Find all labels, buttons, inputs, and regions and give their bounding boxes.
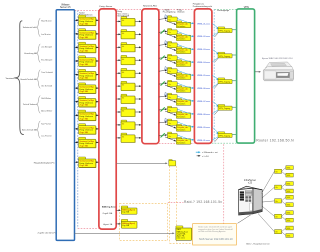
- svg-text:WBSL-02-xxxx: WBSL-02-xxxx: [197, 36, 210, 38]
- svg-text:Fernzugänge: Fernzugänge: [217, 10, 230, 12]
- svg-text:Verwalt-Technik MA: Verwalt-Technik MA: [20, 78, 37, 81]
- svg-text:Tom Schmidt: Tom Schmidt: [41, 71, 53, 74]
- svg-text:WBSL-01-xxxx: WBSL-01-xxxx: [197, 23, 210, 25]
- svg-text:EABeleg-Scan: EABeleg-Scan: [102, 206, 116, 209]
- svg-text:Sekretariat InfoS: Sekretariat InfoS: [23, 26, 38, 29]
- svg-text:Rolf Weber: Rolf Weber: [41, 98, 51, 100]
- svg-text:Jan Beispiel: Jan Beispiel: [41, 46, 52, 48]
- svg-text:Zug: MA: Zug: MA: [122, 211, 130, 214]
- svg-text:Zugriffe über Amt-PC: Zugriffe über Amt-PC: [38, 231, 57, 234]
- svg-text:Zugriff: MA: Zugriff: MA: [103, 212, 113, 215]
- svg-text:NAS Server 192.168.101.10: NAS Server 192.168.101.10: [199, 237, 233, 241]
- svg-text:Vorstand: Vorstand: [6, 77, 15, 80]
- svg-text:Infra/Server: Infra/Server: [244, 179, 256, 182]
- svg-text:Ina Muster: Ina Muster: [41, 33, 51, 36]
- svg-text:Anna Weber: Anna Weber: [41, 109, 52, 112]
- svg-text:Punkteverteilung echt: Punkteverteilung echt: [193, 5, 213, 8]
- svg-text:WBSL-04-xxxx: WBSL-04-xxxx: [197, 62, 210, 64]
- svg-text:Agent: FA: Agent: FA: [103, 223, 112, 226]
- svg-text:Technik Verbund: Technik Verbund: [23, 103, 37, 106]
- svg-text:Router 192.168.50.N: Router 192.168.50.N: [256, 138, 294, 142]
- svg-text:Server 4.5: Server 4.5: [60, 6, 71, 9]
- svg-text:PC-Umgebung: PC-Umgebung: [163, 12, 176, 14]
- svg-text:Netzwerk-Filer: Netzwerk-Filer: [143, 5, 157, 8]
- svg-text:WBSL-07-xxxx: WBSL-07-xxxx: [197, 101, 210, 103]
- svg-text:= L+Prf: = L+Prf: [202, 156, 209, 158]
- svg-text:Verwaltung MA: Verwaltung MA: [24, 52, 37, 55]
- svg-text:WBSL-05-xxxx: WBSL-05-xxxx: [197, 75, 210, 77]
- svg-text:Ute Schmidt: Ute Schmidt: [41, 84, 52, 87]
- svg-text:Epson WBC-500 192.168.1.110: Epson WBC-500 192.168.1.110: [262, 58, 294, 60]
- svg-text:Eva Beispiel: Eva Beispiel: [41, 60, 53, 62]
- svg-text:VPN: VPN: [244, 6, 249, 9]
- svg-text:WBSL-03-xxxx: WBSL-03-xxxx: [197, 49, 210, 51]
- svg-text:Hauptarbeitsplatz-PC: Hauptarbeitsplatz-PC: [34, 161, 55, 164]
- svg-text:Bild 2 - Hauptdatenserver: Bild 2 - Hauptdatenserver: [246, 242, 270, 245]
- svg-text:= F.Bewerb n. ext: = F.Bewerb n. ext: [202, 151, 218, 154]
- svg-text:Amt. Zentrale MA: Amt. Zentrale MA: [22, 128, 37, 131]
- svg-text:WBSL-06-xxxx: WBSL-06-xxxx: [197, 88, 210, 90]
- svg-text:Kai Fischer: Kai Fischer: [41, 123, 51, 125]
- svg-text:Vorlesen: Vorlesen: [177, 11, 184, 14]
- svg-text:WBSL-09-xxxx: WBSL-09-xxxx: [197, 127, 210, 129]
- svg-text:WBSL-08-xxxx: WBSL-08-xxxx: [197, 114, 210, 116]
- svg-text:VMware: VMware: [61, 3, 70, 6]
- svg-text:v.25: v.25: [248, 183, 253, 185]
- svg-text:Freig.-Server: Freig.-Server: [100, 5, 113, 8]
- svg-text:Raid-? 192.168.101.5x: Raid-? 192.168.101.5x: [184, 200, 222, 204]
- svg-text:exkl. intern: exkl. intern: [177, 237, 185, 240]
- svg-text:WBSL-01-xxxx: WBSL-01-xxxx: [197, 140, 210, 142]
- svg-text:Max Muster: Max Muster: [41, 20, 52, 23]
- svg-text:Zug: MA: Zug: MA: [122, 224, 130, 227]
- svg-text:Lea Fischer: Lea Fischer: [41, 135, 52, 137]
- svg-text:mit Bak und Bak-Filerung Agent: mit Bak und Bak-Filerung Agenten: [198, 230, 225, 233]
